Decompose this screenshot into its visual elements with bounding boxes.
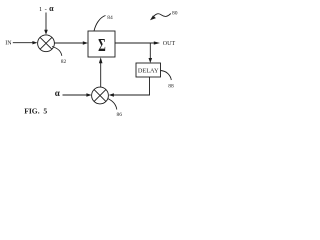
wire branch to delay 88 <box>149 43 151 59</box>
leader to label 82 <box>52 47 62 56</box>
svg-text:OUT: OUT <box>163 41 176 47</box>
summer U84 box <box>88 31 115 57</box>
svg-text:DELAY: DELAY <box>138 68 159 75</box>
wire multiplier 86 to summer 84 <box>100 63 102 88</box>
wire alpha to multiplier 86 <box>63 94 88 96</box>
svg-text:α: α <box>55 88 60 98</box>
wire delay 88 to multiplier 86 <box>113 77 150 95</box>
svg-text:1 - α: 1 - α <box>39 4 54 13</box>
svg-text:84: 84 <box>107 15 113 21</box>
leader to label 86 <box>108 99 117 110</box>
multiplier 82 <box>38 35 55 52</box>
svg-text:80: 80 <box>172 11 178 17</box>
multiplier 86 <box>92 87 109 104</box>
svg-text:86: 86 <box>117 112 123 118</box>
wire from 1-alpha to multiplier 82 <box>45 13 47 31</box>
svg-text:82: 82 <box>61 59 67 65</box>
svg-text:88: 88 <box>168 83 174 89</box>
svg-text:FIG. 5: FIG. 5 <box>24 107 47 116</box>
svg-text:IN: IN <box>5 40 12 46</box>
wire multiplier 82 to summer 84 <box>54 42 83 44</box>
leader to label 84 <box>94 16 106 32</box>
figure reference arrow 80 <box>154 14 171 17</box>
wire IN to multiplier 82 <box>13 42 33 44</box>
leader to label 88 <box>161 71 172 81</box>
wire summer to OUT <box>115 42 155 44</box>
delay 88 box <box>136 63 161 77</box>
svg-text:Σ: Σ <box>98 36 106 56</box>
